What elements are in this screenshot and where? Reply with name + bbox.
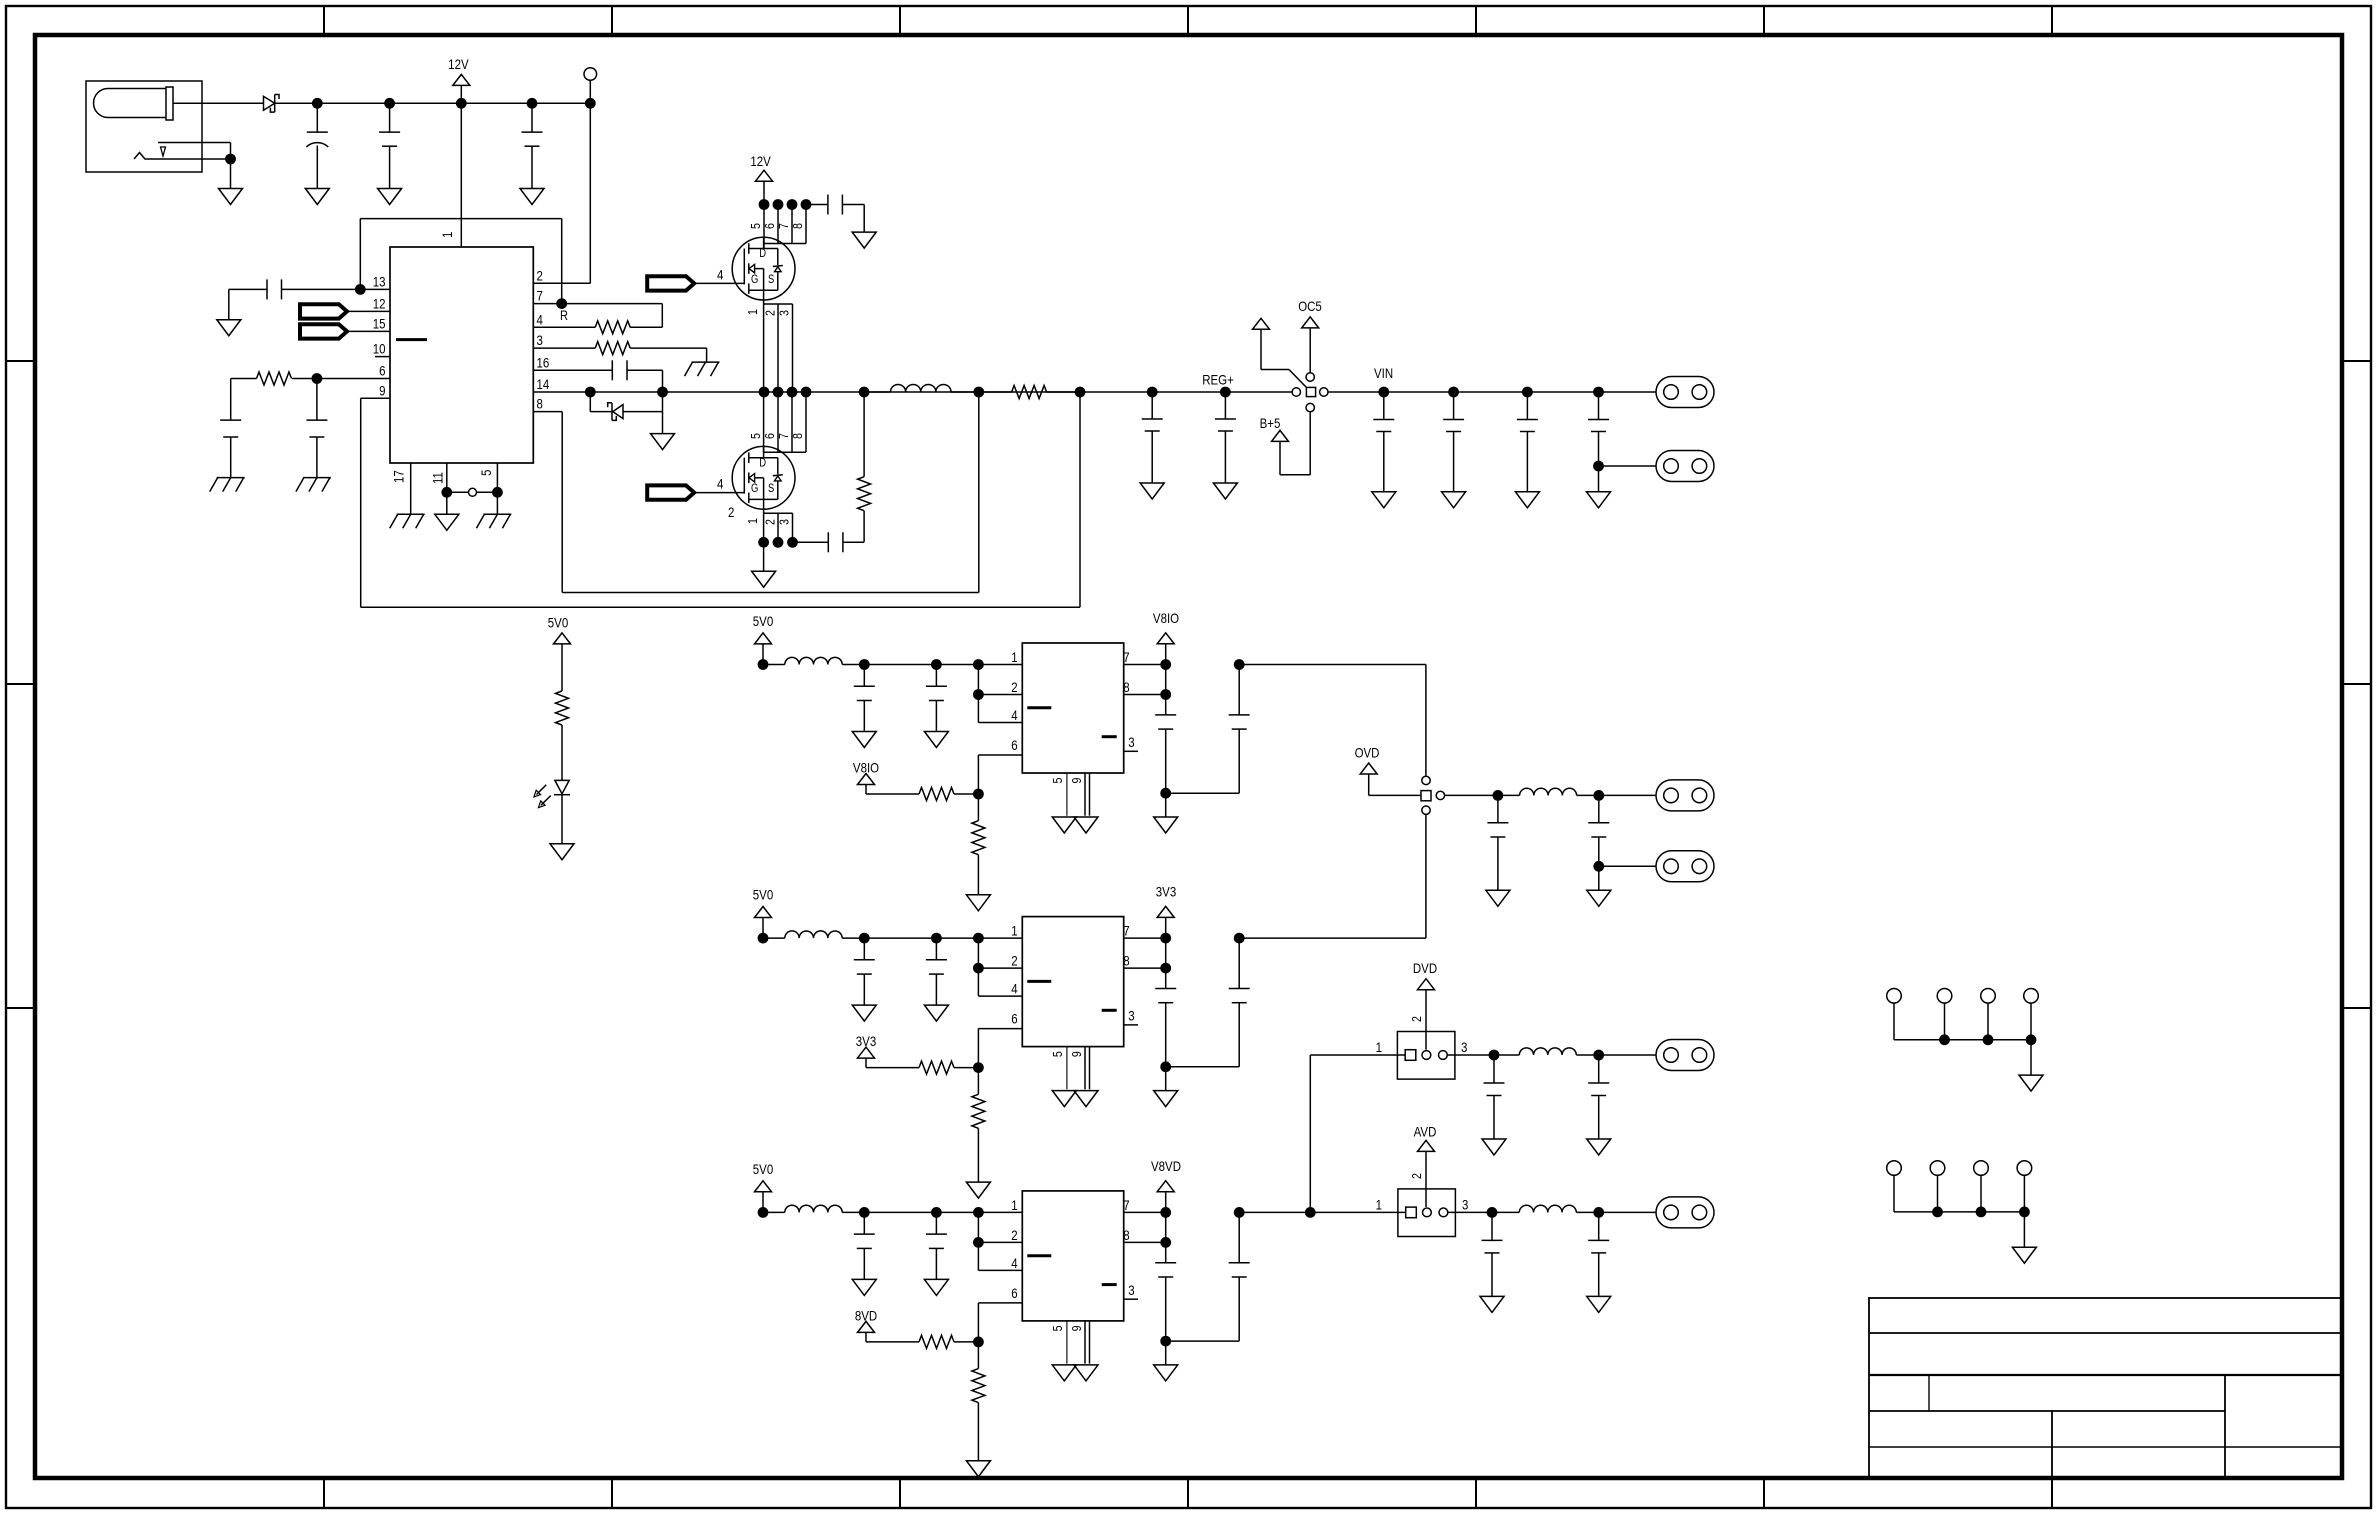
wire VIN rail (1328, 391, 1656, 393)
ground C16 (1486, 890, 1510, 906)
ground U4 pin9 (1074, 1365, 1098, 1381)
capacitor input A reg3 (854, 1212, 875, 1279)
capacitor C20 (1482, 1212, 1503, 1296)
svg-text:9: 9 (379, 382, 385, 398)
svg-text:3: 3 (1461, 1039, 1467, 1055)
svg-text:1: 1 (1011, 1197, 1017, 1213)
wire pin7 out reg3 (1124, 1211, 1166, 1213)
capacitor output A reg2 (1155, 968, 1176, 1067)
wire input rail reg2 (763, 937, 1022, 939)
resistor feedback bottom reg2 (972, 1068, 985, 1183)
wire U1 pin7 (533, 304, 662, 324)
ground C17 (1587, 890, 1611, 906)
port P1 at U1 pin12 (300, 304, 390, 318)
capacitor C1 polarized (306, 103, 328, 188)
port P4 gate2 (647, 475, 744, 520)
U1 pin10 no-connect stub (375, 356, 390, 358)
svg-text:4: 4 (1011, 1255, 1017, 1271)
svg-text:9: 9 (1069, 777, 1084, 783)
wire pin8 reg2 (1124, 963, 1171, 974)
svg-text:4: 4 (1011, 707, 1017, 723)
ground C1 (305, 189, 329, 205)
connector CN1 (1656, 377, 1714, 408)
power 12V (448, 56, 470, 103)
svg-text:7: 7 (1123, 922, 1129, 938)
wire pins 2 and 4 reg1 (973, 665, 1022, 723)
svg-text:D: D (759, 247, 766, 260)
ground output reg1 (1154, 817, 1178, 833)
svg-text:5: 5 (748, 223, 763, 229)
ground U3 pin9 (1074, 1091, 1098, 1107)
capacitor input B reg1 (926, 665, 947, 732)
svg-text:5V0: 5V0 (548, 614, 568, 630)
wire LED to ground (561, 795, 563, 844)
capacitor output B reg2 (1166, 938, 1250, 1067)
connector CN3 (1656, 780, 1714, 811)
U3 pins 5 9 stubs (1067, 1047, 1090, 1090)
svg-text:16: 16 (537, 354, 550, 370)
wire output caps join reg1 (1160, 788, 1239, 817)
power 8VD feedback (855, 1307, 919, 1342)
svg-text:2: 2 (1409, 1173, 1424, 1179)
svg-text:5: 5 (1050, 1325, 1065, 1331)
label VIN (1374, 365, 1393, 381)
capacitor output A reg1 (1155, 695, 1176, 794)
capacitor C18 (1484, 1055, 1505, 1139)
resistor R6 LED (556, 691, 569, 780)
capacitor input B reg3 (926, 1212, 947, 1279)
capacitor C13 (1443, 392, 1464, 492)
svg-text:REG+: REG+ (1202, 371, 1234, 387)
ic U4 (1022, 1191, 1123, 1321)
wire input rail reg1 (763, 664, 1022, 666)
svg-text:2: 2 (728, 504, 734, 520)
junction pin11 (441, 487, 452, 498)
svg-text:3: 3 (776, 310, 791, 316)
diode D2 zener (608, 403, 623, 421)
capacitor C7 pin16 (533, 360, 662, 392)
svg-text:AVD: AVD (1414, 1123, 1437, 1139)
svg-text:11: 11 (429, 472, 445, 484)
junction OVD out A (1493, 790, 1504, 801)
resistor R4 snubber (858, 392, 871, 542)
capacitor C10 (1142, 392, 1163, 483)
connector CN4 (1656, 851, 1714, 882)
resistor feedback bottom reg3 (972, 1342, 985, 1461)
capacitor C16 (1487, 795, 1508, 890)
power 5V0 reg2 input (753, 886, 773, 938)
wire pin7 out reg2 (1124, 937, 1166, 939)
junction DVD out A (1489, 1050, 1500, 1061)
svg-text:3: 3 (776, 519, 791, 525)
ground feedback reg3 (966, 1461, 990, 1477)
wire DVD output (1447, 1054, 1519, 1056)
svg-text:1: 1 (1011, 922, 1017, 938)
svg-text:VIN: VIN (1374, 365, 1393, 381)
svg-text:1: 1 (745, 518, 760, 524)
power V8IO output (1153, 610, 1179, 665)
U1 left pin labels (373, 273, 386, 398)
connector CN2 (1656, 451, 1714, 482)
ground feedback reg2 (966, 1182, 990, 1198)
svg-text:G: G (751, 482, 758, 495)
svg-text:1: 1 (1376, 1196, 1382, 1212)
svg-text:5: 5 (748, 433, 763, 439)
wire Q1 source pins to rail (764, 300, 793, 392)
svg-text:4: 4 (717, 475, 723, 491)
resistor feedback top reg2 (919, 1061, 978, 1074)
svg-text:3: 3 (1128, 1282, 1134, 1298)
wire output caps join reg2 (1160, 1061, 1239, 1090)
svg-text:7: 7 (537, 287, 543, 303)
capacitor C4 series (229, 279, 360, 299)
power 12V FET (750, 153, 772, 205)
junction pin7 (556, 298, 567, 309)
svg-text:17: 17 (390, 470, 406, 483)
U2 pins 5 9 stubs (1067, 773, 1090, 816)
svg-text:B+5: B+5 (1260, 415, 1281, 431)
wire U1 pin2 to testpoint (533, 103, 590, 283)
ground jack (219, 189, 243, 205)
capacitor C21 (1588, 1212, 1609, 1296)
svg-text:12V: 12V (448, 56, 469, 72)
inductor L1 (864, 384, 979, 392)
U4 pin labels (1011, 1197, 1134, 1332)
ground U3 pin5 (1052, 1091, 1076, 1107)
svg-text:V8IO: V8IO (1153, 610, 1179, 626)
wire U1 pin1 to 12V rail (439, 103, 461, 247)
chassis ground C5 (210, 478, 245, 492)
resistor feedback top reg3 (919, 1335, 978, 1348)
port P3 gate1 (647, 266, 744, 290)
svg-text:8: 8 (1123, 1227, 1129, 1243)
capacitor C9 snubber bottom (793, 532, 865, 552)
power 5V0 LED (548, 614, 571, 691)
wire U1 pin17 (410, 463, 412, 514)
svg-text:9: 9 (1069, 1325, 1084, 1331)
svg-text:G: G (751, 273, 758, 286)
ground output reg2 (1154, 1091, 1178, 1107)
power 3V3 feedback (856, 1033, 919, 1068)
Q2 source pin labels (745, 518, 792, 525)
junction input nodes reg3 (758, 1207, 984, 1218)
svg-text:14: 14 (537, 376, 550, 392)
svg-text:S: S (768, 482, 774, 495)
ground C14 (1515, 492, 1539, 508)
ground input A reg2 (852, 1005, 876, 1021)
svg-text:2: 2 (537, 267, 543, 283)
resistor R1 pin4 loop (533, 304, 662, 334)
chassis ground pin17 (390, 514, 425, 528)
capacitor output B reg1 (1166, 665, 1250, 794)
junction OVD out B (1593, 790, 1604, 801)
wire pins 2 and 4 reg2 (973, 938, 1022, 996)
ground Q2 source (752, 571, 776, 587)
wire pin6 reg1 (978, 755, 1022, 794)
wire jack to ground (230, 159, 232, 189)
wire U1 pin6 (317, 378, 390, 380)
junction pin5 (492, 487, 503, 498)
power OC5 (1298, 298, 1322, 373)
svg-text:V8VD: V8VD (1151, 1158, 1181, 1174)
power arrow unnamed (1253, 318, 1307, 387)
svg-text:2: 2 (1011, 952, 1017, 968)
ground U2 pin9 (1074, 817, 1098, 833)
wire C15 ground (1598, 466, 1600, 492)
wire jack to diode (173, 102, 264, 104)
jumper J3 OVD pads (1421, 776, 1445, 814)
svg-text:5: 5 (1050, 1051, 1065, 1057)
svg-text:S: S (768, 273, 774, 286)
wire U1 pin13 (360, 288, 390, 290)
wire main switch rail (590, 391, 1292, 393)
wire Q1 drain pins (764, 205, 806, 249)
wire U1 pin9 long route (361, 392, 1080, 607)
wire Q2 source pins (764, 509, 793, 542)
svg-text:3: 3 (1462, 1196, 1468, 1212)
pin header H2 (1887, 1161, 2032, 1212)
wire header H2 ground (2023, 1212, 2025, 1247)
wire Q2 drain pins (764, 392, 806, 452)
power AVD (1414, 1123, 1437, 1207)
led D3 (534, 780, 570, 807)
junction pin6 (312, 373, 323, 384)
wire U1 pin8 route (533, 392, 979, 593)
ground input A reg3 (852, 1279, 876, 1295)
svg-text:OC5: OC5 (1298, 298, 1322, 314)
ground C15 (1587, 492, 1611, 508)
wire output caps join reg3 (1160, 1336, 1239, 1365)
ground C18 (1482, 1139, 1506, 1155)
capacitor C12 (1373, 392, 1394, 492)
svg-text:7: 7 (1123, 649, 1129, 665)
junction pin6 reg3 (973, 1337, 984, 1348)
chassis ground pin5 (476, 514, 511, 528)
junction rail nodes (585, 387, 1231, 398)
svg-text:OVD: OVD (1355, 744, 1380, 760)
port P2 at U1 pin15 (300, 324, 390, 338)
wire AVD output (1448, 1211, 1520, 1213)
ground pin11 (435, 514, 459, 530)
svg-text:12: 12 (373, 295, 386, 311)
svg-text:2: 2 (1011, 679, 1017, 695)
wire input rail reg3 (763, 1211, 1022, 1213)
svg-text:1: 1 (1376, 1039, 1382, 1055)
pin header H1 (1887, 989, 2039, 1040)
ground zener (651, 434, 675, 450)
capacitor C6 (306, 379, 327, 478)
junction header H1 nodes (1939, 1034, 2036, 1045)
wire header H1 ground (2030, 1040, 2032, 1075)
capacitor C15 (1588, 392, 1609, 466)
ground C13 (1442, 492, 1466, 508)
svg-text:8: 8 (1123, 679, 1129, 695)
svg-text:1: 1 (439, 232, 455, 238)
chassis ground pin3 (685, 362, 720, 376)
svg-text:8: 8 (1123, 952, 1129, 968)
svg-text:4: 4 (1011, 980, 1017, 996)
capacitor C14 (1517, 392, 1538, 492)
wire DVD feed (1310, 1055, 1405, 1212)
svg-text:1: 1 (1011, 649, 1017, 665)
resistor R2 (231, 372, 317, 385)
wire pin8 reg3 (1124, 1237, 1171, 1248)
jumper J2 OC5 pads (1292, 373, 1328, 412)
svg-text:2: 2 (1409, 1016, 1424, 1022)
Q1 drain pin labels (748, 223, 805, 229)
svg-text:9: 9 (1069, 1051, 1084, 1057)
power 5V0 reg3 input (753, 1161, 773, 1213)
ground LED (550, 844, 574, 860)
junction input nodes reg1 (758, 659, 984, 670)
ground C3 (520, 189, 544, 205)
svg-text:7: 7 (1123, 1197, 1129, 1213)
svg-text:8: 8 (537, 395, 543, 411)
wire OVD output (1445, 794, 1520, 796)
ground C2 (378, 189, 402, 205)
ground C10 (1140, 483, 1164, 499)
ground output reg3 (1154, 1365, 1178, 1381)
svg-text:R: R (560, 308, 568, 323)
junction pin13 (355, 284, 366, 295)
svg-text:3: 3 (1128, 1007, 1134, 1023)
capacitor C2 (379, 103, 400, 188)
wire zener to ground (623, 392, 663, 434)
resistor R5 rail (979, 386, 1080, 399)
ground U4 pin5 (1052, 1365, 1076, 1381)
resistor feedback top reg1 (919, 788, 978, 801)
connector CN5 (1656, 1040, 1714, 1071)
capacitor C3 (522, 103, 543, 188)
junction header H2 nodes (1932, 1207, 2030, 1218)
inductor L4 (785, 1205, 842, 1212)
wire U1 pin5 (496, 463, 498, 514)
ground C19 (1587, 1139, 1611, 1155)
capacitor input A reg2 (854, 938, 875, 1005)
U2 pin3 stub (1124, 750, 1138, 752)
power V8IO feedback (853, 759, 919, 794)
wire pins 2 and 4 reg3 (973, 1212, 1022, 1270)
wire 3V3 rail to OVD (1239, 814, 1426, 938)
junction VIN conn2 node (1593, 461, 1604, 472)
transistor Q1 (732, 237, 795, 300)
Q1 source pin labels (745, 309, 792, 316)
svg-text:5V0: 5V0 (753, 1161, 773, 1177)
ground C20 (1480, 1296, 1504, 1312)
junction Q2 source nodes (758, 537, 798, 548)
ground C8 (852, 232, 876, 248)
capacitor output B reg3 (1166, 1212, 1250, 1341)
ic U1 (390, 247, 533, 463)
wire pin6 reg2 (978, 1029, 1022, 1068)
U1 bottom pin labels (390, 470, 494, 484)
jumper J4 DVD (1376, 1016, 1468, 1079)
power V8VD output (1151, 1158, 1181, 1213)
svg-text:5: 5 (1050, 777, 1065, 783)
resistor feedback bottom reg1 (972, 794, 985, 895)
capacitor C17 (1588, 795, 1609, 890)
svg-text:2: 2 (1011, 1227, 1017, 1243)
svg-text:DVD: DVD (1413, 960, 1437, 976)
svg-text:5: 5 (478, 470, 494, 476)
power B+5 (1260, 411, 1311, 474)
svg-text:1: 1 (745, 309, 760, 315)
inductor L5 (1520, 788, 1656, 795)
capacitor C8 snubber top (806, 195, 864, 233)
inductor L3 (785, 931, 842, 938)
wire U1 pin11 (446, 463, 448, 514)
svg-text:6: 6 (379, 362, 385, 378)
wire pin6 reg3 (978, 1303, 1022, 1342)
ground C4 (217, 320, 241, 336)
junction AVD out B (1593, 1207, 1604, 1218)
svg-text:3: 3 (537, 332, 543, 348)
U3 pin3 stub (1124, 1024, 1138, 1026)
junction output nodes reg3 (1160, 1207, 1244, 1218)
U2 pin labels (1011, 649, 1134, 784)
connector J1 DC power jack (86, 81, 231, 172)
inductor L2 (785, 657, 842, 664)
svg-text:2: 2 (762, 310, 777, 316)
svg-text:2: 2 (762, 519, 777, 525)
power DVD (1413, 960, 1437, 1050)
ground input A reg1 (852, 732, 876, 748)
svg-text:4: 4 (537, 311, 543, 327)
svg-text:15: 15 (373, 315, 386, 331)
junction top rail nodes (312, 98, 596, 109)
inductor L6 (1519, 1048, 1656, 1055)
no-connect circle (447, 488, 498, 496)
ground C12 (1372, 492, 1396, 508)
svg-text:5V0: 5V0 (753, 613, 773, 629)
jumper J5 AVD (1376, 1173, 1469, 1236)
wire 12V top rail (275, 102, 591, 104)
wire C4 to ground (228, 289, 230, 319)
junction AVD out A (1487, 1207, 1498, 1218)
U4 pin3 stub (1124, 1298, 1138, 1300)
capacitor input A reg1 (854, 665, 875, 732)
ground C11 (1213, 483, 1237, 499)
svg-text:6: 6 (1011, 1010, 1017, 1026)
svg-text:3: 3 (1128, 734, 1134, 750)
junction input nodes reg2 (758, 933, 984, 944)
svg-text:6: 6 (1011, 1285, 1017, 1301)
U4 pins 5 9 stubs (1067, 1321, 1090, 1364)
junction 12V drain nodes (759, 199, 812, 210)
title block (1869, 1298, 2342, 1508)
capacitor C19 (1588, 1055, 1609, 1139)
chassis ground C6 (296, 478, 331, 492)
capacitor C5 (220, 379, 241, 478)
junction VIN nodes (1378, 387, 1604, 398)
ic U2 (1022, 643, 1123, 773)
ground header H1 (2019, 1075, 2043, 1091)
junction jack switch node (225, 154, 236, 165)
junction pin6 reg2 (973, 1062, 984, 1073)
svg-text:3V3: 3V3 (1156, 883, 1176, 899)
wire to CN4 (1599, 865, 1656, 867)
wire pin8 reg1 (1124, 689, 1171, 700)
wire V8VD rail to AVD jumper (1239, 1207, 1406, 1218)
resistor R3 pin3 (533, 342, 706, 363)
svg-text:10: 10 (373, 340, 386, 356)
power 5V0 reg1 input (753, 613, 773, 665)
svg-text:4: 4 (717, 266, 723, 282)
ground U2 pin5 (1052, 817, 1076, 833)
U3 pin labels (1011, 922, 1134, 1057)
ground C21 (1587, 1296, 1611, 1312)
wire Q2 source to ground (763, 542, 765, 571)
